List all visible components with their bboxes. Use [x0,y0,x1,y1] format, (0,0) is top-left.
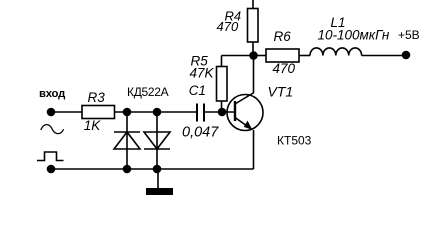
svg-text:47K: 47K [190,65,215,80]
resistor R6 [254,55,267,57]
input terminal bottom [47,165,56,174]
resistor R5 [221,101,223,112]
svg-text:C1: C1 [189,83,206,98]
svg-text:VT1: VT1 [268,84,294,100]
wire emitter down [253,130,255,169]
wire R3 to C1 [115,111,198,113]
svg-text:10-100мкГн: 10-100мкГн [318,28,390,43]
wire input to R3 [51,111,82,113]
input terminal top [47,108,56,117]
wire C1 to base [204,111,235,113]
wire L1 to +5V [362,55,406,57]
bottom rail [51,168,254,170]
diode VD2 (pointing down) [156,112,158,169]
capacitor C1 [196,104,198,122]
svg-text:КД522А: КД522А [127,85,169,99]
svg-text:R3: R3 [88,90,106,105]
inductor L1 [310,48,362,56]
svg-text:0,047: 0,047 [182,125,219,141]
resistor R3 [82,106,115,119]
svg-text:470: 470 [273,61,296,76]
wire collector up [253,56,255,93]
node diode2 bottom [153,165,162,174]
resistor R4 [252,0,254,9]
node base/R5 [218,108,227,117]
node diode1 top [123,108,132,117]
pulse symbol [37,152,64,161]
node diode2 top [153,108,162,117]
ground [157,169,159,188]
node diode1 bottom [123,165,132,174]
svg-text:1K: 1K [84,118,102,133]
transistor VT1 [227,95,263,131]
diode VD1 (pointing up) [126,112,128,169]
svg-text:R6: R6 [274,29,292,44]
svg-text:470: 470 [217,19,239,34]
+5V terminal [402,51,411,60]
node collector junction [249,51,258,60]
svg-text:КТ503: КТ503 [277,134,312,148]
svg-text:+5В: +5В [398,28,420,42]
svg-text:вход: вход [39,88,65,100]
sine symbol [41,125,64,134]
